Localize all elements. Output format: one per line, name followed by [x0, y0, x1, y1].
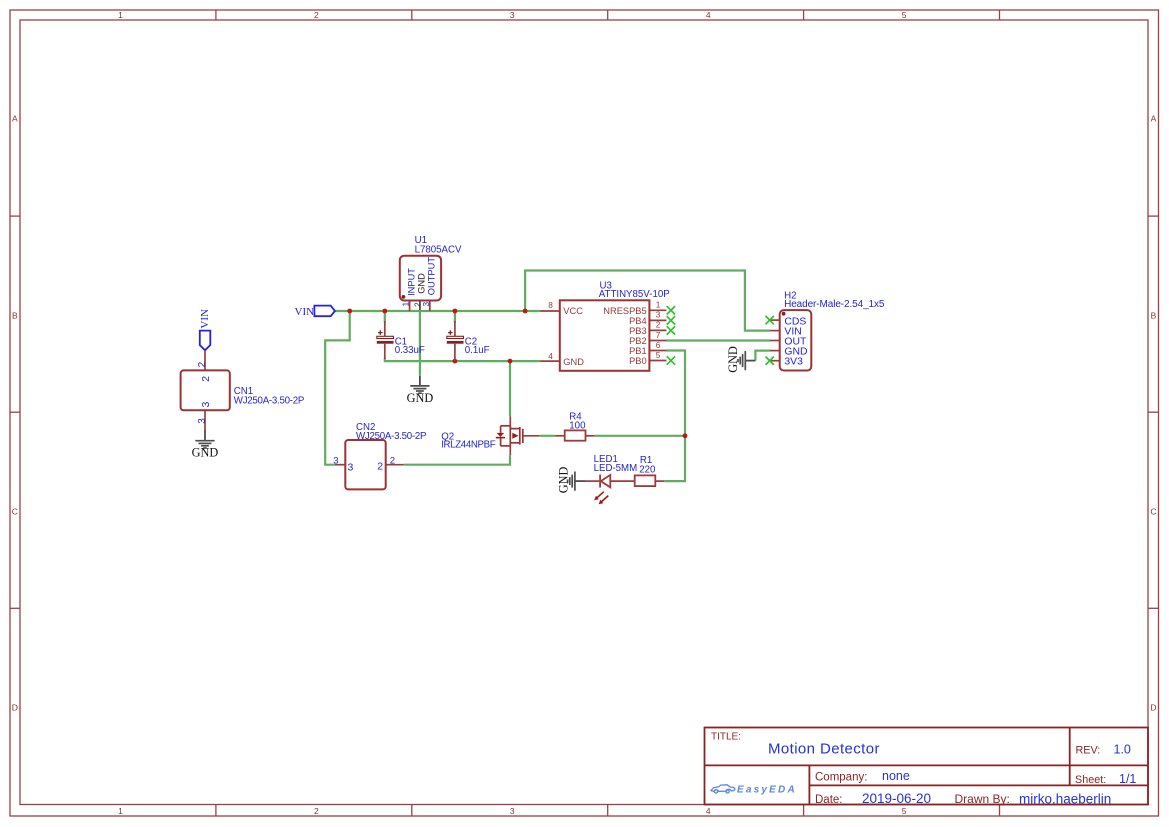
Q2 drain lead [509, 416, 511, 429]
svg-text:VIN: VIN [295, 306, 315, 318]
svg-text:1/1: 1/1 [1119, 772, 1136, 786]
C1 top plate [377, 336, 394, 338]
svg-text:Company:: Company: [815, 772, 867, 784]
U1 pin 1 lead [409, 301, 411, 312]
svg-text:INPUT: INPUT [407, 268, 417, 296]
C1 bottom lead [384, 344, 386, 359]
netflag VIN horizontal [295, 306, 335, 318]
wire R4 to PB1 node [595, 435, 685, 437]
svg-text:3: 3 [510, 806, 515, 816]
CN1 body [181, 370, 230, 410]
CN1 pin 3 lead [204, 410, 206, 430]
svg-text:3V3: 3V3 [784, 357, 803, 368]
svg-text:Date:: Date: [815, 794, 843, 806]
U3 pin numbers 8 4 1 3 2 7 6 5 [548, 300, 661, 361]
svg-text:1: 1 [118, 806, 123, 816]
C1 top lead [384, 321, 386, 336]
svg-text:PB4: PB4 [629, 316, 647, 326]
svg-text:D: D [1150, 703, 1156, 713]
svg-text:GND: GND [557, 467, 571, 494]
netflag VIN vertical at CN1 [199, 309, 211, 350]
svg-text:GND: GND [192, 446, 219, 460]
svg-text:2: 2 [390, 456, 395, 467]
C2 polarity plus [448, 330, 453, 335]
ic U3 ATTINY85V-10P [541, 281, 676, 371]
mosfet Q2 IRLZ44NPBF [441, 416, 539, 455]
svg-text:WJ250A-3.50-2P: WJ250A-3.50-2P [356, 431, 426, 442]
C1 polarity plus [378, 330, 383, 335]
junction GND rail / Q2 drain [508, 359, 513, 364]
U3 pin 3 lead [649, 319, 666, 321]
CN2 pin 3 lead [335, 464, 345, 466]
svg-text:VCC: VCC [563, 306, 583, 316]
led emission arrows [594, 492, 608, 505]
U1 pin 2 lead [419, 301, 421, 311]
svg-text:1: 1 [118, 10, 123, 20]
C2 top plate [447, 336, 464, 338]
Q2 mosfet symbol outline with body diode [501, 426, 523, 446]
wire PB1 to R1 [664, 351, 685, 482]
resistor R1 220 [635, 455, 665, 486]
svg-text:B: B [12, 310, 18, 320]
svg-text:VIN: VIN [199, 309, 211, 329]
svg-text:ATTINY85V-10P: ATTINY85V-10P [599, 289, 670, 300]
svg-text:C: C [1150, 506, 1156, 516]
svg-text:C: C [12, 506, 18, 516]
U1 body [400, 256, 441, 301]
svg-text:mirko.haeberlin: mirko.haeberlin [1019, 791, 1111, 806]
svg-text:Drawn By:: Drawn By: [955, 792, 1010, 806]
no-connect X marks U3 pins 1 3 2 5 [667, 306, 675, 365]
C2 bottom plate [447, 341, 464, 344]
wire C1 branch [384, 311, 386, 323]
U3 pin 7 lead [649, 340, 666, 342]
svg-text:1: 1 [656, 300, 661, 310]
svg-text:3: 3 [510, 10, 515, 20]
LED1 cathode lead [586, 480, 600, 482]
ground GND under U1 [407, 376, 434, 405]
header H2 Header-Male-2.54_1x5 [766, 291, 885, 371]
junction VIN rail / C2 [453, 309, 458, 314]
R1 right lead [655, 480, 664, 482]
svg-text:D: D [12, 703, 18, 713]
CN2 body [345, 440, 385, 489]
svg-text:GND: GND [726, 346, 740, 373]
LED1 triangle [601, 475, 611, 487]
C2 bottom lead [454, 344, 456, 361]
svg-text:3: 3 [200, 402, 212, 408]
wire C2 branch [454, 311, 456, 323]
svg-text:3: 3 [656, 310, 661, 320]
svg-text:IRLZ44NPBF: IRLZ44NPBF [441, 439, 496, 450]
U3 pin 1 lead [649, 309, 666, 311]
svg-text:NRESPB5: NRESPB5 [603, 306, 646, 316]
wire VCC rail VIN to U3 pin8 [335, 310, 541, 312]
TITLEBLOCK [705, 728, 1149, 807]
svg-text:2: 2 [314, 10, 319, 20]
svg-text:Sheet:: Sheet: [1075, 774, 1106, 786]
svg-text:REV:: REV: [1076, 745, 1101, 757]
wire VCC to H2 VIN [525, 271, 770, 331]
svg-text:GND: GND [416, 273, 426, 294]
svg-text:LED-5MM: LED-5MM [594, 463, 638, 474]
svg-text:OUTPUT: OUTPUT [427, 257, 437, 296]
svg-text:2: 2 [377, 461, 383, 473]
svg-text:PB3: PB3 [629, 326, 647, 336]
junction VIN rail / CN2 branch [347, 309, 352, 314]
ground GND at LED1 sideways [557, 467, 586, 494]
U1 pin 3 lead [429, 301, 431, 312]
capacitor C1 0.33uF [377, 321, 425, 359]
svg-text:PB0: PB0 [629, 356, 647, 366]
H2 pin labels CDS VIN OUT GND 3V3 [784, 316, 807, 367]
svg-text:0.1uF: 0.1uF [465, 345, 490, 356]
Q2 body-diode cathode bar [496, 437, 505, 439]
ground GND under CN1 [192, 430, 219, 460]
U1 pin1 marker dot [402, 295, 406, 299]
easyeda logo [711, 785, 797, 796]
svg-text:TITLE:: TITLE: [711, 732, 741, 743]
capacitor C2 0.1uF [447, 321, 490, 361]
svg-text:PB2: PB2 [629, 336, 647, 346]
svg-text:4: 4 [706, 806, 711, 816]
svg-text:1: 1 [400, 302, 410, 307]
svg-text:2: 2 [197, 361, 208, 367]
svg-text:B: B [1151, 310, 1157, 320]
CN2 pin 2 lead [386, 464, 404, 466]
svg-text:none: none [882, 769, 910, 783]
svg-text:3: 3 [197, 418, 208, 424]
svg-text:GND: GND [563, 357, 584, 367]
svg-text:1.0: 1.0 [1114, 743, 1131, 757]
svg-text:WJ250A-3.50-2P: WJ250A-3.50-2P [234, 396, 304, 407]
led LED1 LED-5MM [586, 454, 637, 504]
Q2 source lead [509, 446, 511, 455]
svg-text:Motion Detector: Motion Detector [768, 741, 880, 758]
H2 pin 2 VIN lead [770, 330, 780, 332]
svg-text:2: 2 [314, 806, 319, 816]
svg-text:3: 3 [421, 302, 431, 307]
junction GND rail / C2 [453, 359, 458, 364]
wire GND rail C1 to U3 pin4 [385, 358, 541, 361]
wire loop VIN junction down to CN2 pin3 [325, 311, 350, 465]
svg-text:PB1: PB1 [629, 346, 647, 356]
svg-text:3: 3 [333, 456, 338, 467]
svg-text:220: 220 [639, 464, 656, 475]
connector CN2 [333, 422, 426, 489]
connector CN1 [181, 350, 304, 430]
H2 pin 4 GND lead [770, 350, 780, 352]
wire GND rail to Q2 drain [509, 361, 511, 416]
svg-text:8: 8 [548, 300, 553, 310]
U3 pin 5 lead [649, 360, 666, 362]
R4 body [565, 430, 586, 440]
svg-text:L7805ACV: L7805ACV [415, 244, 462, 255]
CN1 pin 2 lead [204, 350, 206, 370]
wire U1 pin2 to GND symbol [419, 310, 421, 376]
wire PB2 to H2 OUT [667, 339, 771, 341]
wire Q2 source to CN2 pin2 [404, 455, 510, 465]
Q2 body-diode triangle [497, 433, 504, 437]
svg-text:0.33uF: 0.33uF [395, 345, 425, 356]
wire H2 GND to ground [755, 351, 770, 361]
svg-text:EasyEDA: EasyEDA [737, 785, 797, 796]
resistor R4 100 [555, 411, 594, 440]
Q2 gate lead [523, 435, 540, 437]
H2 pin 5 3V3 lead [770, 360, 780, 362]
svg-text:2: 2 [200, 376, 212, 382]
svg-text:2: 2 [656, 320, 661, 330]
junction VIN rail / H2 VIN branch [523, 309, 528, 314]
U3 body [560, 300, 650, 371]
C2 top lead [454, 321, 456, 336]
junction VIN rail / C1 [382, 309, 387, 314]
C1 bottom plate [377, 341, 394, 344]
LED1 cathode bar [599, 475, 601, 488]
H2 pin 3 OUT lead [770, 340, 780, 342]
svg-text:A: A [12, 114, 18, 124]
svg-text:7: 7 [656, 330, 661, 340]
U3 pin labels VCC GND NRESPB5 PB4 PB3 PB2 PB1 PB0 [563, 306, 646, 367]
LED1 anode lead [610, 480, 634, 482]
svg-text:4: 4 [548, 351, 553, 361]
svg-text:3: 3 [348, 461, 354, 473]
U3 pin 8 VCC lead [541, 310, 560, 312]
svg-text:4: 4 [706, 10, 711, 20]
ground GND at H2 sideways [726, 346, 755, 373]
H2 body [780, 310, 812, 370]
svg-text:6: 6 [656, 340, 661, 350]
R1 body [635, 475, 656, 486]
U3 pin 6 lead [649, 350, 666, 352]
svg-text:5: 5 [656, 350, 661, 360]
H2 pin1 marker dot [782, 312, 786, 316]
R4 left lead [555, 435, 564, 437]
R4 right lead [586, 435, 595, 437]
svg-text:2019-06-20: 2019-06-20 [862, 791, 931, 806]
U3 pin 4 GND lead [541, 360, 560, 362]
svg-text:5: 5 [902, 10, 907, 20]
U3 pin 2 lead [649, 329, 666, 331]
svg-text:GND: GND [407, 391, 434, 405]
junction R4 / PB1 net [683, 433, 688, 438]
svg-text:100: 100 [569, 421, 586, 432]
Q2 channel arrow [512, 433, 518, 439]
svg-text:A: A [1151, 114, 1157, 124]
wire Q2 gate to R4 [539, 435, 555, 437]
no-connect X marks H2 pins CDS 3V3 [766, 316, 774, 365]
svg-text:Header-Male-2.54_1x5: Header-Male-2.54_1x5 [784, 299, 885, 310]
svg-text:5: 5 [902, 806, 907, 816]
regulator U1 L7805ACV [400, 235, 462, 311]
H2 pin 1 CDS lead [770, 319, 780, 321]
